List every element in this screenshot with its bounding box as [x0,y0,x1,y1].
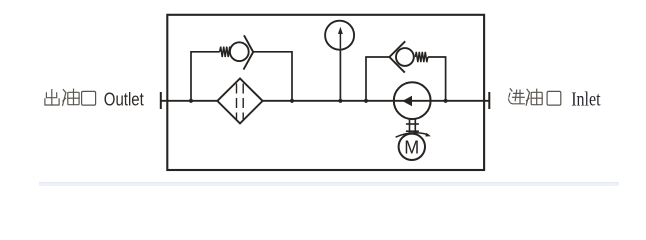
table row band (bottom) [39,182,619,186]
junction dot B [290,99,294,103]
wire: pump bypass right [428,57,446,101]
wire: filter bypass left [191,52,220,101]
junction dot C [338,99,342,103]
shaft coupling [406,119,419,134]
pressure gauge G1 body [325,21,354,50]
check valve V1 seat [244,35,254,69]
check valve V1 spring [220,47,231,57]
label 出 (left) [45,90,59,105]
label 口 (right) [547,91,561,105]
pump P1 body [394,82,431,119]
gauge needle shaft [339,33,341,49]
filter F1 element dashed lines [236,84,238,121]
check valve V2 seat [389,41,405,72]
label 油 (left) [63,89,80,105]
pump P1 flow triangle [402,96,412,107]
label Outlet [104,89,144,110]
check valve V1 ball [230,42,249,61]
check valve V2 ball [396,48,414,66]
motor M1 body [399,134,425,160]
junction dot A [189,99,193,103]
wire: filter bypass right [253,52,292,101]
junction dot D [364,99,368,103]
gauge needle arrowhead [338,27,343,34]
check valve V2 spring [415,52,428,62]
svg-text:Inlet: Inlet [571,88,600,110]
right port tick [488,92,490,109]
filter F1 body [217,79,262,124]
label 进 (right) [509,89,525,104]
label Inlet [571,88,600,110]
rotation arrow [396,133,431,137]
wire: pump bypass left [366,57,389,101]
left port tick [160,92,162,109]
svg-text:Outlet: Outlet [104,89,144,110]
enclosure rectangle [167,15,484,170]
junction dot E [444,99,448,103]
gauge stem wire [339,49,341,101]
label 口 (left) [82,91,96,105]
label 油 (right) [526,89,542,105]
svg-text:M: M [404,137,419,157]
main line (outlet-inlet) [161,100,490,102]
